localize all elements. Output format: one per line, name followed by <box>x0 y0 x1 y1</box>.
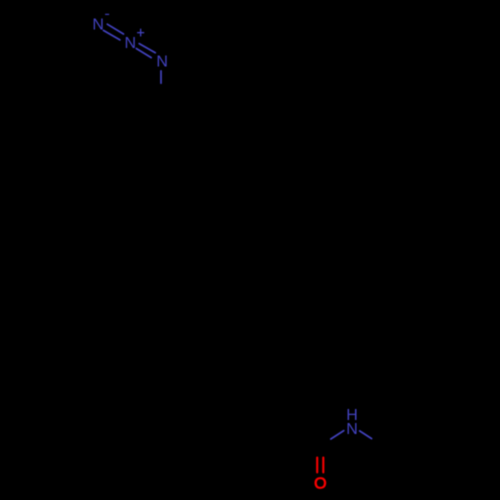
svg-text:N: N <box>92 17 104 34</box>
svg-text:N: N <box>346 421 358 438</box>
svg-text:O: O <box>314 476 326 493</box>
svg-text:N: N <box>156 54 168 71</box>
svg-text:N: N <box>125 35 137 52</box>
